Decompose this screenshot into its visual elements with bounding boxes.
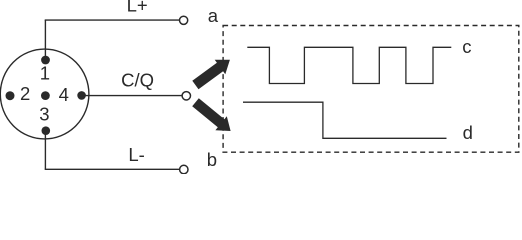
svg-text:2: 2 bbox=[20, 83, 30, 104]
terminal C/Q bbox=[182, 92, 190, 100]
waveform d trace bbox=[243, 102, 447, 138]
wire L- vertical from pin 3 bbox=[44, 131, 46, 170]
pin 1 bbox=[41, 56, 50, 65]
wire L- horizontal bbox=[45, 168, 180, 170]
dashed box bbox=[223, 26, 519, 153]
svg-text:L+: L+ bbox=[127, 0, 148, 16]
svg-text:b: b bbox=[207, 149, 217, 170]
svg-text:4: 4 bbox=[59, 84, 69, 105]
terminal a bbox=[180, 16, 188, 24]
pin 2 bbox=[6, 91, 15, 100]
connector body (M12 circle) bbox=[0, 49, 89, 139]
svg-text:a: a bbox=[208, 5, 219, 26]
terminal b bbox=[180, 165, 188, 173]
wire C/Q bbox=[82, 95, 182, 97]
pin 4 bbox=[77, 91, 86, 100]
pin 3 bbox=[42, 126, 51, 135]
center pin bbox=[41, 91, 50, 100]
svg-text:1: 1 bbox=[40, 63, 50, 84]
svg-text:c: c bbox=[462, 36, 471, 57]
waveform c trace bbox=[247, 47, 451, 83]
svg-text:d: d bbox=[463, 122, 473, 143]
wire L+ vertical from pin 1 bbox=[44, 20, 46, 60]
svg-text:C/Q: C/Q bbox=[121, 69, 154, 90]
arrow down to waveform d bbox=[192, 98, 230, 131]
svg-text:L-: L- bbox=[128, 144, 144, 165]
svg-text:3: 3 bbox=[39, 104, 49, 125]
arrow up to waveform c bbox=[192, 60, 230, 89]
wire L+ horizontal bbox=[45, 19, 180, 21]
